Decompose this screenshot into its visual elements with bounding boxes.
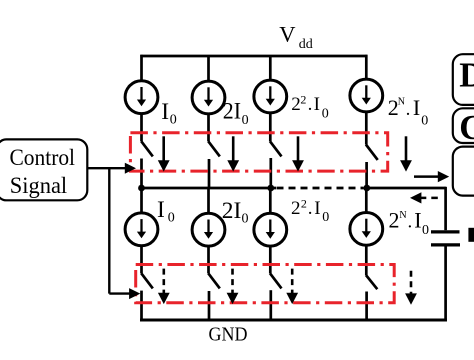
svg-text:0: 0 (242, 113, 249, 128)
svg-text:0: 0 (242, 212, 249, 227)
svg-text:I: I (314, 94, 320, 115)
svg-text:GND: GND (209, 324, 248, 346)
svg-text:0: 0 (322, 107, 329, 122)
svg-text:N: N (398, 96, 405, 107)
svg-text:I: I (157, 197, 165, 223)
svg-text:Control: Control (10, 145, 76, 170)
svg-text:.: . (308, 198, 313, 219)
svg-text:D: D (459, 56, 474, 94)
svg-text:2: 2 (291, 94, 301, 115)
svg-text:V: V (279, 21, 295, 46)
svg-text:N: N (399, 210, 406, 221)
svg-text:.: . (408, 212, 413, 233)
svg-text:0: 0 (170, 113, 177, 128)
svg-text:2I: 2I (222, 198, 242, 224)
svg-text:I: I (314, 198, 320, 219)
svg-text:2: 2 (291, 198, 301, 219)
svg-text:I: I (414, 208, 421, 233)
svg-text:0: 0 (168, 211, 175, 226)
svg-text:0: 0 (422, 223, 429, 238)
svg-text:2I: 2I (223, 98, 241, 124)
svg-text:I: I (161, 99, 169, 125)
svg-text:Signal: Signal (10, 173, 67, 198)
svg-text:.: . (308, 94, 313, 115)
svg-text:2: 2 (301, 197, 307, 211)
svg-text:I: I (413, 95, 420, 120)
svg-text:0: 0 (421, 113, 428, 128)
svg-text:dd: dd (299, 37, 313, 52)
svg-text:.: . (406, 99, 411, 120)
svg-text:2: 2 (389, 208, 400, 233)
svg-text:2: 2 (300, 93, 306, 107)
svg-text:0: 0 (322, 210, 329, 225)
svg-text:C: C (459, 109, 474, 147)
